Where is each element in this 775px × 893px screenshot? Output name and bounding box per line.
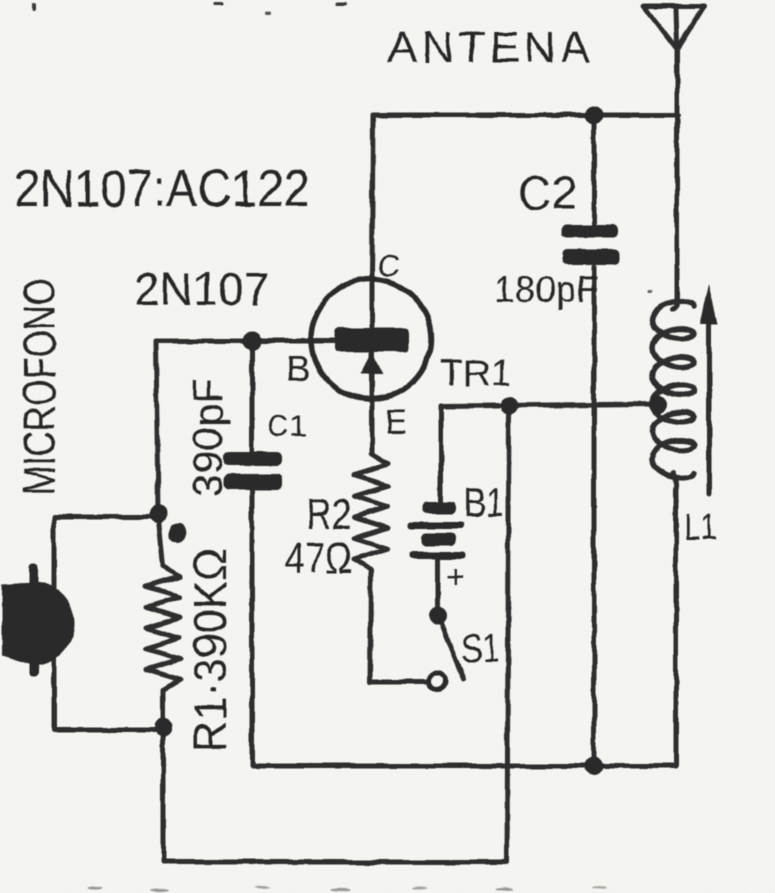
svg-text:2N107: 2N107 <box>134 263 270 315</box>
svg-text:MICROFONO: MICROFONO <box>14 278 65 495</box>
svg-text:B1: B1 <box>464 479 504 526</box>
svg-text:R1·390KΩ: R1·390KΩ <box>184 548 236 752</box>
svg-text:R2: R2 <box>306 490 352 539</box>
svg-text:180pF: 180pF <box>494 269 599 310</box>
svg-text:2N107:AC122: 2N107:AC122 <box>14 160 310 218</box>
svg-text:S1: S1 <box>462 627 499 671</box>
svg-text:C1: C1 <box>267 410 307 443</box>
svg-text:TR1: TR1 <box>440 353 512 395</box>
svg-text:B: B <box>286 348 310 389</box>
svg-text:47Ω: 47Ω <box>285 534 352 583</box>
svg-text:C2: C2 <box>518 167 577 219</box>
svg-text:390pF: 390pF <box>184 378 231 497</box>
svg-text:E: E <box>385 403 408 441</box>
svg-text:C: C <box>377 248 399 283</box>
svg-text:L1: L1 <box>684 507 717 549</box>
svg-text:+: + <box>446 559 465 595</box>
